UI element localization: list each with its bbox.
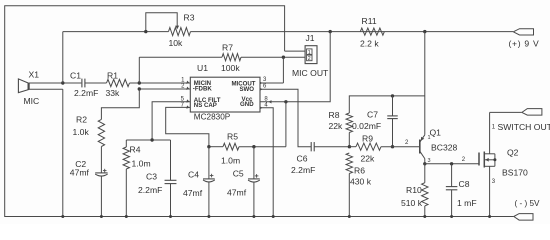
- svg-text:22k: 22k: [329, 121, 344, 131]
- svg-text:MC2830P: MC2830P: [194, 113, 231, 122]
- svg-text:C6: C6: [297, 154, 308, 164]
- svg-text:2: 2: [308, 56, 311, 62]
- svg-text:2.2mF: 2.2mF: [138, 185, 162, 195]
- svg-text:R9: R9: [362, 134, 373, 144]
- svg-text:( - ) 5V: ( - ) 5V: [515, 199, 541, 208]
- svg-text:Q1: Q1: [430, 128, 442, 138]
- svg-text:C1: C1: [70, 71, 81, 81]
- svg-text:C8: C8: [459, 179, 470, 189]
- svg-text:-FDBK: -FDBK: [193, 86, 213, 93]
- svg-text:R3: R3: [184, 13, 195, 23]
- svg-text:47mf: 47mf: [70, 168, 90, 178]
- svg-text:R8: R8: [329, 110, 340, 120]
- svg-text:R1: R1: [107, 71, 118, 81]
- svg-text:3: 3: [428, 158, 431, 164]
- svg-text:R5: R5: [227, 131, 238, 141]
- svg-text:NS CAP: NS CAP: [194, 102, 217, 109]
- svg-text:2.2mF: 2.2mF: [74, 88, 98, 98]
- svg-text:(+) 9 V: (+) 9 V: [509, 39, 540, 49]
- svg-text:0.02mF: 0.02mF: [352, 121, 381, 131]
- svg-text:X1: X1: [29, 70, 40, 80]
- svg-text:MIC: MIC: [24, 96, 40, 106]
- svg-text:100k: 100k: [221, 63, 240, 73]
- svg-text:47mf: 47mf: [227, 188, 247, 198]
- svg-text:U1: U1: [197, 63, 208, 73]
- svg-text:Q2: Q2: [507, 148, 519, 158]
- svg-text:C4: C4: [188, 170, 199, 180]
- svg-text:J1: J1: [306, 33, 315, 43]
- svg-text:SWITCH OUT: SWITCH OUT: [498, 122, 550, 132]
- svg-text:510 k: 510 k: [401, 198, 423, 208]
- svg-text:1.0m: 1.0m: [132, 159, 151, 169]
- svg-text:R7: R7: [222, 43, 233, 53]
- svg-text:1 mF: 1 mF: [457, 198, 477, 208]
- svg-text:1.0m: 1.0m: [221, 156, 240, 166]
- svg-text:C5: C5: [233, 169, 244, 179]
- svg-text:R4: R4: [130, 144, 141, 154]
- svg-text:R11: R11: [362, 16, 377, 26]
- svg-text:C7: C7: [367, 110, 378, 120]
- svg-text:R2: R2: [76, 115, 87, 125]
- svg-text:1: 1: [308, 50, 311, 56]
- svg-text:1.0k: 1.0k: [73, 127, 90, 137]
- svg-text:SWO: SWO: [239, 86, 254, 93]
- svg-text:MIC OUT: MIC OUT: [292, 68, 329, 78]
- svg-text:GND: GND: [240, 101, 254, 108]
- svg-text:2.2mF: 2.2mF: [291, 165, 315, 175]
- svg-text:2.2 k: 2.2 k: [360, 39, 379, 49]
- svg-text:R6: R6: [354, 165, 365, 175]
- svg-text:430 k: 430 k: [350, 177, 372, 187]
- svg-text:47mf: 47mf: [183, 188, 203, 198]
- svg-text:22k: 22k: [361, 154, 376, 164]
- svg-text:10k: 10k: [169, 38, 184, 48]
- svg-text:R10: R10: [406, 185, 422, 195]
- svg-text:BC328: BC328: [431, 143, 457, 153]
- svg-text:C3: C3: [146, 172, 157, 182]
- svg-text:1: 1: [428, 135, 431, 141]
- svg-text:BS170: BS170: [502, 168, 528, 178]
- svg-text:33k: 33k: [106, 88, 121, 98]
